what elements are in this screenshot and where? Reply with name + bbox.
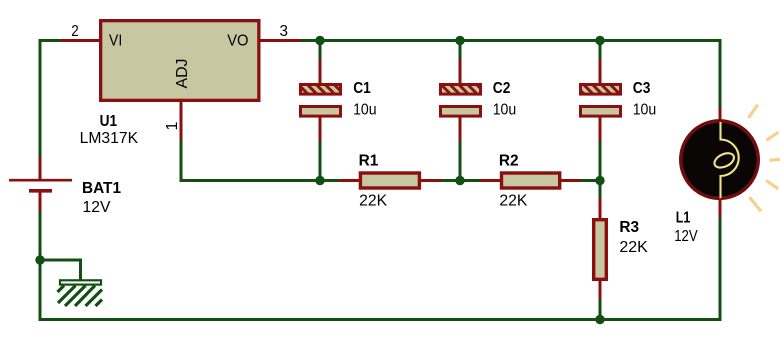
svg-text:L1: L1: [676, 209, 691, 226]
junction node C (C3/R2/R3): [595, 176, 604, 185]
svg-text:C3: C3: [633, 80, 651, 97]
svg-text:12V: 12V: [83, 199, 111, 216]
junction node B (C2/R1/R2): [455, 176, 464, 185]
wire C3 to resistor row: [599, 141, 602, 181]
svg-text:10u: 10u: [493, 102, 517, 119]
svg-text:22K: 22K: [619, 239, 648, 256]
svg-text:1: 1: [164, 122, 181, 131]
pin 1 (ADJ) stub of U1: [180, 102, 183, 142]
wire node B to R2: [460, 179, 481, 182]
svg-text:BAT1: BAT1: [82, 180, 121, 197]
wire to ground branch: [40, 260, 81, 280]
pin 2 (VI) stub of U1: [60, 39, 100, 42]
svg-text:3: 3: [280, 23, 289, 40]
junction node rail/C2: [455, 36, 464, 45]
junction node rail/C1: [315, 36, 324, 45]
svg-text:VI: VI: [109, 33, 122, 50]
wire R3 to bottom rail: [599, 299, 602, 320]
svg-text:C1: C1: [353, 80, 371, 97]
svg-text:22K: 22K: [359, 193, 387, 210]
junction node A (C1/R1/ADJ): [315, 176, 324, 185]
lamp rays: [748, 105, 780, 212]
wire C2 to resistor row: [459, 141, 462, 181]
svg-text:LM317K: LM317K: [80, 130, 139, 147]
wire rail to C1: [319, 41, 322, 61]
junction node rail/C3: [595, 36, 604, 45]
svg-text:VO: VO: [227, 33, 248, 50]
wire rail to C3: [599, 41, 602, 61]
wire battery to bottom rail: [40, 211, 720, 320]
resistor R1: [340, 173, 444, 188]
battery BAT1: [9, 157, 72, 212]
svg-text:C2: C2: [493, 80, 511, 97]
svg-text:22K: 22K: [499, 193, 527, 210]
svg-text:U1: U1: [100, 113, 118, 130]
capacitor C1: [301, 59, 341, 142]
svg-text:R3: R3: [619, 219, 639, 236]
regulator U1 body: [101, 21, 259, 101]
wire node C to R3: [599, 181, 602, 200]
wire rail to C2: [459, 41, 462, 61]
ground: [58, 280, 103, 306]
svg-text:R2: R2: [499, 152, 519, 169]
wire ADJ to resistor row: [181, 141, 340, 181]
resistor R3: [594, 198, 607, 300]
svg-text:ADJ: ADJ: [174, 59, 191, 89]
junction node R3/bottom rail: [595, 315, 604, 324]
capacitor C2: [441, 59, 481, 142]
svg-text:R1: R1: [359, 152, 379, 169]
svg-text:10u: 10u: [353, 102, 377, 119]
lamp L1: [681, 108, 758, 219]
capacitor C3: [581, 59, 621, 142]
junction node battery/ground: [35, 255, 44, 264]
pin 3 (VO) stub of U1: [260, 39, 302, 42]
resistor R2: [480, 173, 582, 188]
wire R1 to node B: [442, 179, 460, 182]
svg-text:2: 2: [71, 23, 79, 40]
wire VO output rail: [301, 41, 720, 109]
wire R2 to node C: [581, 179, 600, 182]
wire C1 to resistor row: [319, 141, 322, 181]
svg-text:12V: 12V: [674, 228, 698, 245]
wire battery top to U1 VI: [40, 41, 61, 159]
svg-text:10u: 10u: [633, 102, 657, 119]
